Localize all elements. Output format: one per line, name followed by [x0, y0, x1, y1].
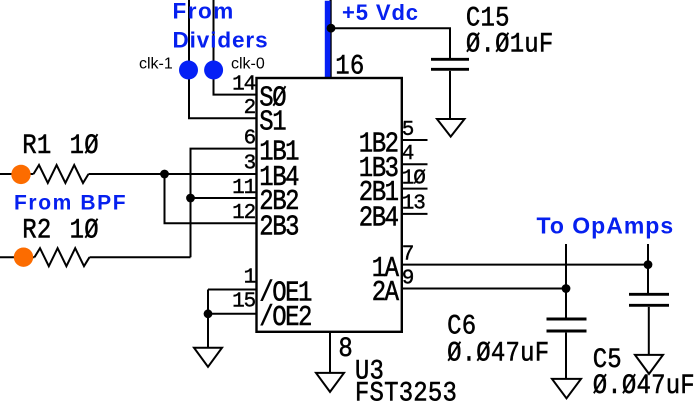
label From Dividers [173, 0, 269, 53]
svg-text:1: 1 [244, 267, 256, 290]
ground under C6 [552, 379, 581, 398]
svg-text:1Ø: 1Ø [402, 167, 426, 190]
wire R2 bus up to 1B1 [191, 149, 257, 258]
wire R1 branch to 2B3 [165, 174, 257, 223]
stub pin 13 (2B4) [401, 213, 428, 215]
junction OE tie [204, 309, 213, 318]
ground under pin 8 [316, 373, 344, 392]
resistor R2 [35, 248, 90, 266]
label R2 10 [22, 214, 99, 246]
svg-text:R1: R1 [22, 130, 51, 162]
junction 2A/C6 [562, 284, 571, 293]
svg-text:2: 2 [244, 97, 256, 120]
wire clk-0 net to S0 [214, 0, 257, 95]
svg-text:4: 4 [402, 143, 414, 166]
junction R2 branch to 2B2 [186, 194, 195, 203]
svg-text:2A: 2A [372, 276, 399, 309]
stub pin 4 (1B3) [401, 163, 428, 165]
wire +5V branch to C15 [331, 28, 450, 58]
wire from BPF to R1 [0, 173, 34, 175]
svg-text:2B3: 2B3 [259, 210, 298, 243]
svg-text:From: From [173, 0, 235, 24]
node R1 input terminal (orange) [11, 165, 30, 184]
svg-text:1Ø: 1Ø [70, 130, 99, 162]
wire /OE1 /OE2 tie to ground [208, 290, 256, 348]
label R1 10 [22, 130, 99, 162]
resistor R1 [34, 165, 89, 183]
ground under OE [194, 348, 222, 367]
wire +5V net black core [330, 0, 332, 79]
svg-text:From BPF: From BPF [14, 192, 127, 215]
wire 1A output [401, 264, 648, 266]
svg-text:Dividers: Dividers [173, 28, 269, 53]
capacitor C5 [629, 294, 669, 354]
wire pin 8 to ground [329, 332, 331, 373]
wire R2 to vertical bus [90, 256, 191, 258]
svg-text:9: 9 [402, 267, 414, 290]
wire 1A riser to opamps / C5 [647, 244, 649, 293]
wire from BPF to R2 [0, 256, 35, 258]
svg-text:12: 12 [232, 202, 256, 225]
ground under C15 [437, 119, 465, 137]
wire +5V thick blue highlight into pin 16 [325, 1, 331, 79]
svg-text:Ø.Ø47uF: Ø.Ø47uF [447, 337, 549, 369]
svg-text:FST3253: FST3253 [355, 377, 457, 409]
svg-text:2B4: 2B4 [359, 201, 398, 234]
node R2 input terminal (orange) [14, 248, 33, 267]
ground under C5 [635, 355, 663, 374]
svg-text:S1: S1 [259, 105, 285, 138]
svg-text:13: 13 [402, 193, 426, 216]
svg-text:11: 11 [232, 177, 256, 200]
svg-text:1Ø: 1Ø [70, 214, 99, 246]
svg-text:5: 5 [402, 119, 414, 142]
junction R1 branch [160, 170, 169, 179]
svg-text:Ø.Ø47uF: Ø.Ø47uF [593, 369, 695, 401]
wire branch to 2B2 [191, 197, 257, 199]
svg-text:/OE2: /OE2 [259, 301, 311, 334]
svg-text:3: 3 [244, 153, 256, 176]
svg-text:clk-0: clk-0 [231, 55, 265, 72]
IC U3 FST3253 body [257, 78, 402, 332]
svg-text:8: 8 [338, 333, 353, 365]
node clk-1 (blue terminal) [179, 61, 198, 80]
junction on +5V wire [327, 24, 336, 33]
capacitor C15 [431, 59, 469, 118]
capacitor C6 [547, 319, 587, 378]
node clk-0 (blue terminal) [204, 61, 223, 80]
svg-text:6: 6 [244, 127, 256, 150]
wire 2A riser to opamps / C6 [565, 244, 567, 320]
svg-text:clk-1: clk-1 [139, 55, 173, 72]
svg-text:To OpAmps: To OpAmps [537, 213, 675, 239]
svg-text:15: 15 [232, 291, 256, 314]
svg-text:R2: R2 [22, 214, 51, 246]
svg-text:14: 14 [232, 73, 256, 96]
svg-text:7: 7 [402, 243, 414, 266]
wire clk-1 net to S1 [189, 0, 256, 118]
stub pin 1Ø (2B1) [401, 188, 428, 190]
svg-text:Ø.Ø1uF: Ø.Ø1uF [466, 28, 554, 60]
wire R1 to pin 1B4 [89, 173, 257, 175]
stub pin 5 (1B2) [401, 139, 428, 141]
wire 2A output [401, 288, 566, 290]
junction 1A/C5 [644, 260, 653, 269]
svg-text:+5 Vdc: +5 Vdc [342, 0, 419, 25]
